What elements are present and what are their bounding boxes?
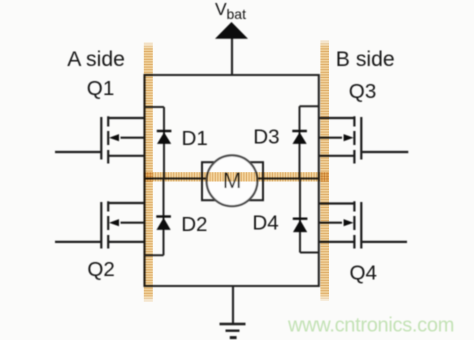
motor M (frame and body) (202, 155, 263, 206)
wire D4 branch bottom stub (300, 252, 319, 254)
svg-text:D2: D2 (181, 213, 207, 236)
wire D2 branch bottom stub (145, 254, 164, 256)
svg-text:D4: D4 (252, 212, 278, 235)
ground (220, 324, 246, 338)
svg-text:D1: D1 (182, 127, 208, 150)
wire D4 branch vertical (299, 179, 301, 253)
wire D1 branch vertical (163, 107, 165, 179)
svg-text:B side: B side (336, 48, 395, 71)
diode D1 (157, 131, 172, 144)
wire mid rail (motor node) (145, 177, 319, 179)
transistor Q1 (NMOS, high side A) (101, 116, 144, 163)
highlight net B side rail (320, 40, 329, 301)
svg-text:Q1: Q1 (87, 77, 114, 100)
power symbol Vbat arrow (215, 22, 248, 39)
wire top rail (Vbat net) (145, 74, 319, 76)
wire Vbat stem (231, 37, 233, 75)
svg-text:A side: A side (67, 48, 125, 71)
svg-text:D3: D3 (253, 126, 279, 149)
wire D2 branch vertical (163, 179, 165, 256)
label Vbat (215, 0, 246, 22)
diode D4 (293, 219, 308, 232)
wire D3 branch vertical (299, 106, 301, 178)
highlight net motor node (144, 172, 329, 181)
transistor Q2 (NMOS, low side A) (101, 201, 144, 248)
wire Q2 gate lead (55, 241, 101, 243)
diode D3 (292, 131, 307, 144)
wire right leg (B side rail) (318, 74, 320, 287)
svg-text:Q3: Q3 (349, 80, 376, 103)
transistor Q4 (NMOS, low side B) (319, 201, 362, 248)
wire ground stem (232, 286, 234, 324)
svg-text:V: V (215, 0, 227, 19)
transistor Q3 (NMOS, high side B) (319, 116, 362, 163)
wire D1 branch top stub (145, 106, 165, 108)
wire Q4 gate lead (361, 241, 407, 243)
svg-text:bat: bat (227, 6, 247, 22)
wire Q1 gate lead (55, 151, 101, 153)
svg-text:Q4: Q4 (350, 261, 377, 284)
wire Q3 gate lead (361, 151, 408, 153)
wire bottom rail (ground net) (145, 285, 319, 287)
wire left leg (A side rail) (143, 74, 145, 287)
wire D3 branch top stub (300, 105, 319, 107)
svg-text:www.cntronics.com: www.cntronics.com (287, 315, 454, 337)
diode D2 (156, 217, 171, 230)
highlight net A side rail (144, 42, 153, 302)
svg-text:Q2: Q2 (87, 258, 114, 281)
